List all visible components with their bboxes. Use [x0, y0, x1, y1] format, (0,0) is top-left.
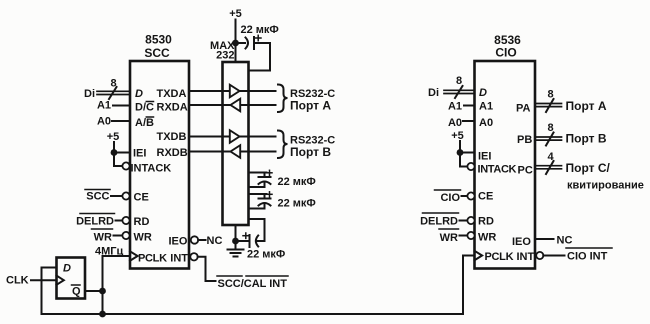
wire clock riser to SCC PCLK [102, 256, 104, 314]
svg-text:A1: A1 [97, 100, 111, 112]
svg-text:DELRD: DELRD [420, 216, 458, 228]
svg-text:WR: WR [440, 232, 458, 244]
svg-text:RD: RD [478, 216, 494, 228]
wire IEO to NC [198, 239, 205, 241]
node Di (data bus into U1, 8 bits) [84, 78, 130, 101]
svg-text:22 мкФ: 22 мкФ [241, 24, 279, 36]
node A0 (U1) [97, 116, 130, 128]
pin bubble RD (U4) [467, 217, 474, 224]
pin bubble INT (U4) [536, 252, 543, 259]
svg-text:+5: +5 [229, 8, 242, 20]
node CLK [6, 275, 57, 287]
svg-text:8: 8 [110, 78, 116, 90]
junction [99, 288, 106, 295]
wire RXDB [189, 151, 276, 153]
brace Port B [278, 131, 288, 159]
svg-text:WR: WR [134, 232, 152, 244]
pin bubble CE (U4) [467, 192, 474, 199]
net CIO INT [566, 248, 612, 263]
wire TXDB [189, 136, 276, 138]
wire RXDA [189, 104, 276, 106]
svg-text:Порт B: Порт B [290, 145, 331, 159]
svg-text:8: 8 [547, 89, 553, 101]
pin label Q-bar (U3) [72, 285, 82, 298]
buffer TXDB driver [230, 130, 240, 143]
clock pin PCLK (U4) [475, 251, 483, 260]
svg-text:CIO INT: CIO INT [567, 251, 608, 263]
svg-text:4: 4 [547, 151, 554, 163]
buffer RXDA receiver [231, 99, 241, 112]
wire IEI (U1) [114, 152, 130, 154]
svg-text:PA: PA [516, 103, 531, 115]
clock pin (U3) [57, 276, 64, 285]
svg-text:NC: NC [557, 235, 573, 247]
wire Q-bar output [85, 290, 103, 292]
svg-text:8530: 8530 [145, 33, 172, 47]
node Di (data bus into U4, 8 bits) [428, 75, 475, 99]
pin bubble RD (U1) [122, 217, 129, 224]
wire IEO to NC (U4) [536, 238, 554, 240]
buffer RXDB receiver [231, 145, 241, 158]
pin bubble WR (U1) [122, 232, 129, 239]
wire IEI (U4) [460, 152, 475, 154]
svg-text:PCLK: PCLK [485, 251, 514, 263]
svg-text:Di: Di [84, 88, 95, 100]
pin bubble IEO (U1) [191, 236, 198, 243]
svg-text:8: 8 [547, 122, 553, 134]
node A1 (U1) [97, 100, 130, 112]
net SCC chip-select [85, 190, 122, 203]
label Порт C / квитирование [566, 161, 644, 192]
svg-text:A/B: A/B [135, 117, 154, 129]
buffer TXDA driver [230, 85, 240, 98]
svg-text:SCC: SCC [144, 46, 170, 60]
IC U4 8536 CIO [475, 33, 536, 269]
svg-text:IEI: IEI [133, 148, 146, 160]
svg-text:D: D [135, 88, 143, 100]
flip-flop U3 divide-by-two [57, 258, 86, 299]
wire clock bus along bottom [42, 313, 464, 315]
capacitor C2 22мкФ [249, 170, 316, 188]
svg-text:Порт C/: Порт C/ [566, 161, 611, 175]
svg-text:IEO: IEO [512, 236, 531, 248]
ground [228, 243, 244, 257]
svg-text:8: 8 [456, 75, 462, 87]
svg-text:CIO: CIO [440, 192, 460, 204]
net DELRD [76, 214, 122, 228]
node A0 (U4) [448, 117, 475, 129]
svg-text:SCC: SCC [86, 191, 109, 203]
pin label A/B (U1) [135, 117, 154, 129]
junction [457, 149, 464, 156]
net WR (U4) [439, 229, 467, 244]
net DELRD (U4) [420, 213, 467, 228]
node A1 (U4) [448, 101, 475, 113]
wire D feedback (U3) [42, 268, 57, 315]
svg-text:квитирование: квитирование [567, 180, 644, 192]
capacitor C4 22мкФ [236, 233, 286, 261]
svg-text:TXDB: TXDB [157, 131, 187, 143]
svg-text:PB: PB [517, 134, 532, 146]
IC U1 8530 SCC [130, 33, 189, 269]
svg-text:A0: A0 [97, 116, 111, 128]
svg-text:A1: A1 [479, 101, 493, 113]
svg-text:Порт A: Порт A [566, 99, 607, 113]
svg-text:Порт A: Порт A [290, 99, 331, 113]
wire to INTACK (U1) [114, 153, 122, 167]
pin bubble CE (U1) [122, 192, 129, 199]
svg-text:CE: CE [134, 192, 149, 204]
svg-text:D: D [63, 263, 71, 275]
capacitor C3 22мкФ [249, 192, 316, 210]
junction [232, 238, 239, 245]
svg-text:A0: A0 [479, 117, 493, 129]
pin label D/C (U1) [135, 102, 154, 114]
svg-text:RXDB: RXDB [157, 147, 188, 159]
svg-text:Q: Q [72, 286, 81, 298]
pin bubble INTACK (U1) [122, 162, 129, 169]
wire +5 down to junction (U4) [459, 141, 461, 153]
wire INT to SCC/CAL INT label [198, 257, 216, 281]
svg-text:Порт B: Порт B [566, 132, 607, 146]
pin bubble INT (U1) [190, 253, 197, 260]
svg-text:22 мкФ: 22 мкФ [278, 176, 316, 188]
svg-text:22 мкФ: 22 мкФ [278, 198, 316, 210]
svg-text:INT: INT [170, 253, 188, 265]
svg-text:DELRD: DELRD [76, 216, 114, 228]
junction [232, 40, 239, 47]
pin bubble WR (U4) [467, 232, 474, 239]
bus PC, 4 bits [536, 151, 562, 174]
wire V- pin loop [249, 219, 265, 241]
svg-text:RXDA: RXDA [157, 102, 188, 114]
svg-text:SCC/CAL INT: SCC/CAL INT [218, 278, 288, 290]
svg-text:IEI: IEI [478, 151, 491, 163]
svg-text:D: D [479, 87, 487, 99]
bus PA, 8 bits [536, 89, 562, 113]
net SCC/CAL INT [217, 276, 288, 290]
capacitor C1 22мкФ [236, 24, 279, 71]
svg-text:232: 232 [216, 50, 234, 62]
svg-text:A0: A0 [448, 117, 462, 129]
wire +5 into U2 [235, 20, 237, 63]
svg-text:CE: CE [478, 191, 493, 203]
net WR (U1) [92, 229, 123, 244]
IC U2 MAX232 [210, 40, 248, 225]
svg-text:A1: A1 [448, 101, 462, 113]
bus PB, 8 bits [536, 122, 562, 146]
wire TXDA [189, 90, 276, 92]
svg-text:CLK: CLK [6, 275, 29, 287]
pin bubble INTACK (U4) [467, 163, 474, 170]
wire to INTACK (U4) [460, 153, 467, 167]
svg-text:PC: PC [518, 165, 533, 177]
brace Port A [278, 85, 288, 113]
junction [99, 311, 106, 318]
clock pin PCLK (U1) [130, 251, 138, 260]
net CIO chip-select [435, 190, 468, 204]
svg-text:D/C: D/C [135, 102, 154, 114]
svg-text:22 мкФ: 22 мкФ [247, 249, 285, 261]
svg-text:IEO: IEO [169, 236, 188, 248]
svg-text:CIO: CIO [495, 46, 516, 60]
svg-text:RD: RD [134, 216, 150, 228]
svg-text:WR: WR [94, 232, 112, 244]
svg-text:INTACK: INTACK [478, 164, 517, 176]
svg-text:TXDA: TXDA [157, 88, 187, 100]
svg-text:+5: +5 [451, 130, 464, 142]
wire INT to CIO INT label [543, 255, 564, 257]
wire riser to CIO PCLK [463, 256, 475, 315]
svg-text:WR: WR [478, 232, 496, 244]
svg-text:NC: NC [207, 235, 223, 247]
svg-text:INT: INT [517, 251, 535, 263]
svg-text:INTACK: INTACK [131, 163, 172, 175]
wire bottom pin of U2 [235, 225, 237, 241]
svg-text:PCLK: PCLK [138, 253, 167, 265]
svg-text:Di: Di [428, 87, 439, 99]
junction [111, 149, 118, 156]
wire +5 down to junction [113, 142, 115, 153]
wire 4MHz to PCLK (U1) [103, 255, 131, 257]
